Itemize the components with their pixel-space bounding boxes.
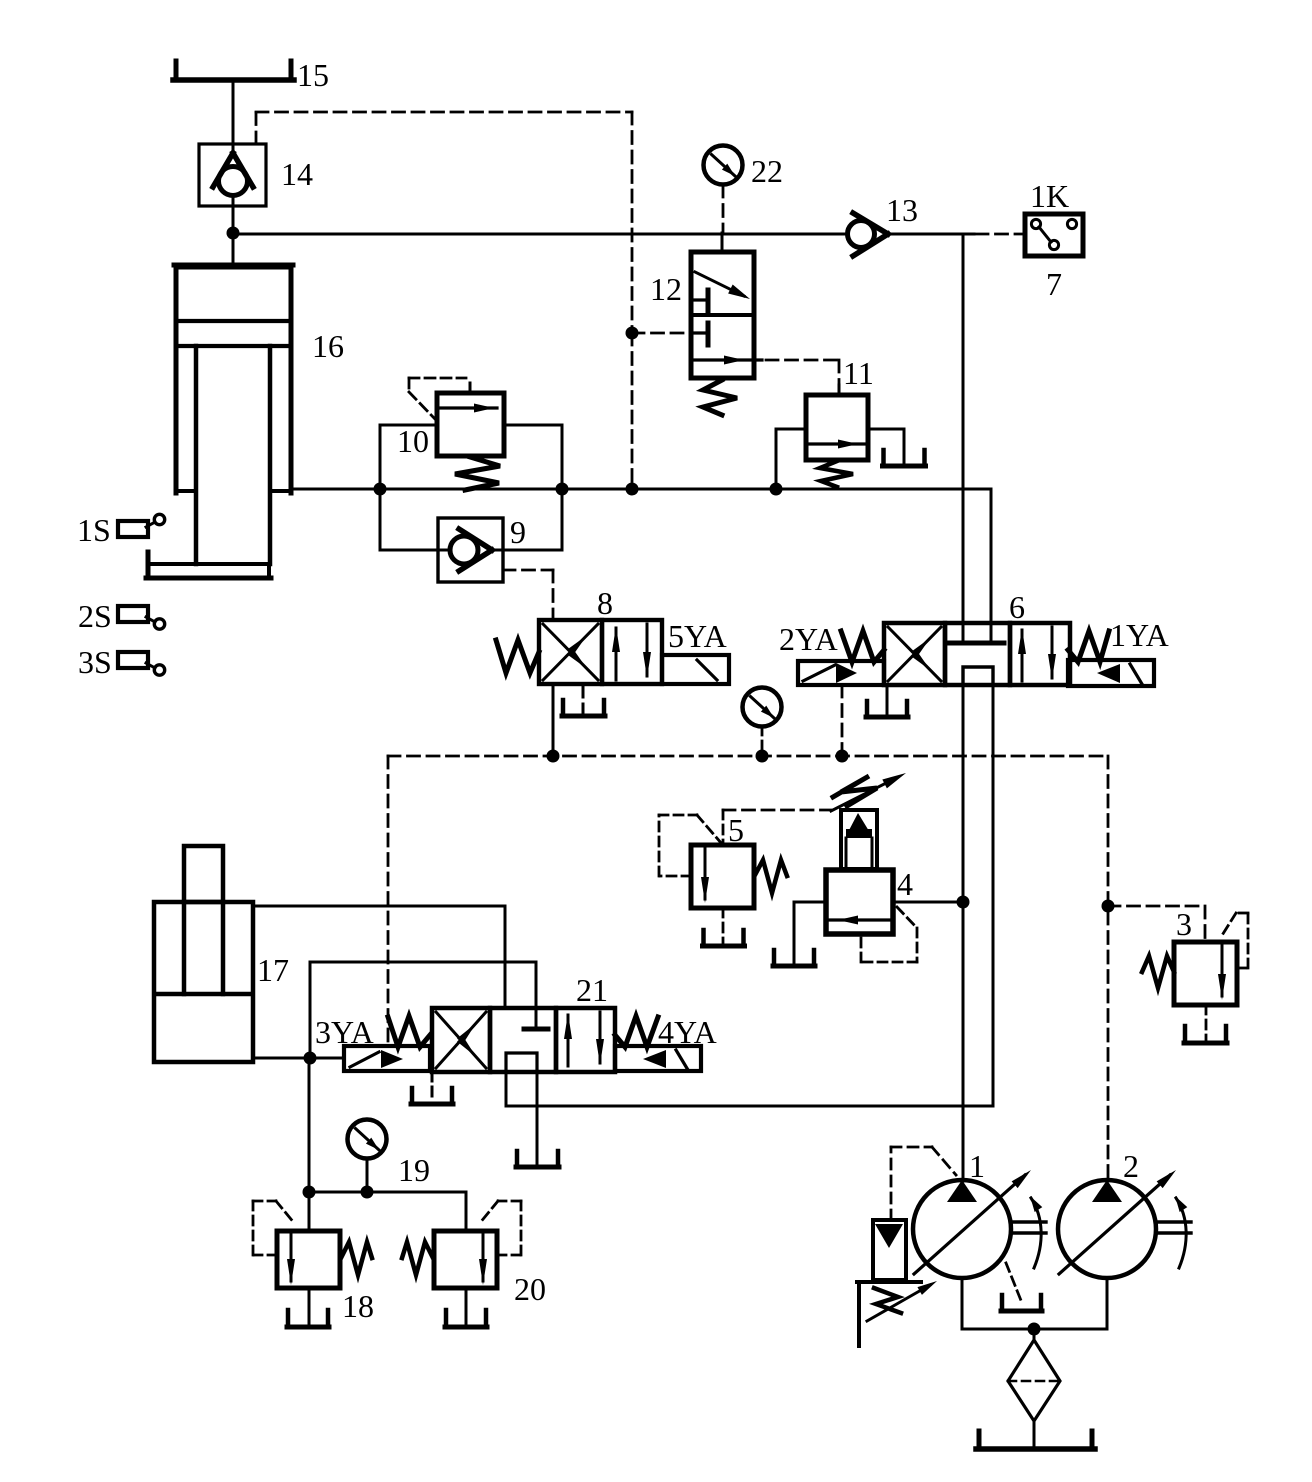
svg-text:19: 19 bbox=[398, 1152, 430, 1188]
tank at valve 3 bbox=[1183, 1026, 1188, 1043]
svg-text:6: 6 bbox=[1009, 589, 1025, 625]
svg-text:5YA: 5YA bbox=[668, 618, 727, 654]
valve 4 pilot drain loop (dashed) bbox=[897, 907, 917, 928]
pressure gauge 19 bbox=[348, 1120, 387, 1159]
valve 3 drain (dashed) bbox=[1205, 1005, 1208, 1040]
variable pump 1 bbox=[913, 1180, 1011, 1278]
solenoid 1YA bbox=[1068, 660, 1154, 686]
svg-text:2S: 2S bbox=[78, 598, 112, 634]
svg-text:1: 1 bbox=[969, 1148, 985, 1184]
pump 1 control spring and bracket bbox=[857, 1280, 921, 1284]
svg-text:14: 14 bbox=[281, 156, 313, 192]
wire valve14 to cylinder 16 with junction bbox=[232, 196, 235, 265]
valve 8 right position box (parallel arrows) bbox=[602, 620, 662, 684]
valve 8 tank port (dashed) bbox=[582, 685, 585, 697]
svg-text:10: 10 bbox=[397, 423, 429, 459]
tank at valve 20 bbox=[444, 1310, 449, 1327]
tank 15 (reservoir) bbox=[174, 61, 179, 80]
svg-text:4YA: 4YA bbox=[658, 1014, 717, 1050]
sensing line (dashed) to pressure switch 7 bbox=[976, 233, 1023, 236]
valve 6 left spring bbox=[841, 631, 884, 662]
valve 20 drain bbox=[465, 1288, 468, 1324]
svg-text:5: 5 bbox=[728, 812, 744, 848]
pilot branch (dashed) to valve 12 bbox=[626, 327, 639, 340]
check 9 pilot (dashed) to valve 8 bbox=[503, 569, 553, 572]
svg-text:20: 20 bbox=[514, 1271, 546, 1307]
control pilot rail (dashed, y=756) bbox=[388, 755, 1108, 758]
valve 18 pilot loop (dashed) bbox=[254, 1254, 277, 1257]
svg-text:7: 7 bbox=[1046, 266, 1062, 302]
valve 8 left position box (crossed arrows) bbox=[539, 620, 602, 684]
pump 2 shaft and rotation bbox=[1156, 1220, 1191, 1223]
svg-text:1S: 1S bbox=[77, 512, 111, 548]
pressure gauge (between 8 and 6) bbox=[743, 688, 782, 727]
svg-text:15: 15 bbox=[297, 57, 329, 93]
relief valve 10 bbox=[437, 393, 504, 456]
svg-text:9: 9 bbox=[510, 514, 526, 550]
svg-text:2: 2 bbox=[1123, 1148, 1139, 1184]
relief valve 18 bbox=[277, 1231, 340, 1288]
valve 5 drain (dashed) bbox=[722, 908, 725, 943]
valve 4 adjustable spring with arrow bbox=[833, 776, 877, 806]
valve 6 right spring bbox=[1068, 631, 1109, 662]
valve 12 pilot output (dashed) to valve 11 bbox=[766, 359, 839, 362]
valve 6 tank port bbox=[886, 685, 889, 714]
filter to tank wire bbox=[1033, 1421, 1036, 1449]
svg-text:8: 8 bbox=[597, 585, 613, 621]
valve 21 B-port wire to tank bbox=[536, 1072, 539, 1163]
solenoid 2YA bbox=[798, 661, 884, 685]
variable pump 2 bbox=[1058, 1180, 1156, 1278]
valve 21 centre position box bbox=[490, 1008, 556, 1072]
tank at valve 21 left bbox=[410, 1088, 415, 1104]
valve 4 outlet wire to pump line bbox=[893, 901, 963, 904]
tank pump case drain bbox=[1000, 1295, 1005, 1311]
svg-text:11: 11 bbox=[843, 355, 874, 391]
valve 6 centre position box (blocked P/T, bridged A/B) bbox=[945, 623, 1010, 685]
cylinder 17 bbox=[184, 846, 223, 902]
valve 21 tank port (dashed) bbox=[431, 1072, 434, 1100]
pressure gauge 22 bbox=[704, 146, 743, 185]
valve 11 outlet wire to tank bbox=[868, 428, 904, 431]
valve 18 drain bbox=[308, 1288, 311, 1324]
wire check 13 to tee bbox=[888, 233, 974, 236]
cylinder 17 piston-side wire bbox=[253, 1057, 344, 1060]
wire pump1 pressure riser (x=963) bbox=[962, 234, 965, 641]
valve 5 pilot loop (dashed) bbox=[660, 875, 691, 878]
relief valve 20 bbox=[434, 1231, 497, 1288]
label wire tank15 to valve 14 bbox=[232, 83, 235, 152]
tank at valve 5 bbox=[701, 930, 706, 946]
pump 1 case drain (dashed) bbox=[1006, 1263, 1022, 1303]
svg-text:16: 16 bbox=[312, 328, 344, 364]
pilot-operated check valve 14 bbox=[199, 144, 266, 206]
wire riser to valve 6 P-port (x=991) bbox=[990, 489, 993, 623]
svg-text:1YA: 1YA bbox=[1110, 617, 1169, 653]
cylinder 16 platen foot bbox=[146, 552, 151, 578]
svg-text:3S: 3S bbox=[78, 644, 112, 680]
pump suction wires bbox=[961, 1278, 964, 1329]
valve 8 return spring bbox=[496, 640, 539, 673]
gauge sensing stub (dashed) bbox=[761, 727, 764, 756]
valve 8 A-port wire down bbox=[552, 684, 555, 756]
valve 21 left spring bbox=[388, 1016, 430, 1047]
valve 20 pilot loop (dashed) bbox=[497, 1254, 520, 1257]
svg-text:1K: 1K bbox=[1030, 178, 1069, 214]
solenoid 3YA bbox=[344, 1046, 430, 1071]
main tank (reservoir) bbox=[977, 1431, 982, 1449]
pump 1 shaft and rotation bbox=[1011, 1220, 1046, 1223]
check valve 9 bbox=[438, 518, 503, 582]
svg-text:2YA: 2YA bbox=[779, 621, 838, 657]
valve 11 inlet wire bbox=[776, 428, 806, 431]
valve 5 top pilot stub (dashed) bbox=[722, 810, 725, 845]
solenoid 2YA pilot wire (dashed) bbox=[841, 685, 844, 756]
svg-text:3: 3 bbox=[1176, 906, 1192, 942]
pilot rail left drop to valve 21 (dashed) bbox=[387, 756, 390, 1044]
reducing valve 3 bbox=[1174, 942, 1237, 1005]
cylinder 16 (press ram) bbox=[176, 267, 291, 493]
valve 6 right position box (parallel arrows) bbox=[1010, 623, 1070, 685]
pump 1 control pilot (dashed) bbox=[890, 1147, 893, 1220]
return line y=1106 bbox=[506, 1105, 993, 1108]
valve 4 inlet wire to tank bbox=[794, 901, 826, 904]
bypass loop wires bbox=[379, 425, 382, 550]
cylinder 17 rod-side wire bbox=[253, 905, 505, 908]
valve 21 right spring bbox=[615, 1016, 658, 1047]
tank at valve 11 bbox=[881, 450, 886, 466]
pressure line to check valve 13 (y=234) bbox=[233, 233, 845, 236]
work line from cylinder 16 (y=489) bbox=[291, 488, 991, 491]
valve 21 left position box (crossed arrows) bbox=[432, 1008, 490, 1072]
valve 3 feed (dashed) bbox=[1108, 905, 1205, 908]
suction filter bbox=[1008, 1340, 1060, 1421]
valve 21 right position box (parallel arrows) bbox=[556, 1008, 615, 1072]
svg-text:3YA: 3YA bbox=[315, 1014, 374, 1050]
pilot line y=810 (dashed) bbox=[723, 809, 831, 812]
valve 4 proportional solenoid tower bbox=[841, 810, 877, 869]
svg-text:21: 21 bbox=[576, 972, 608, 1008]
pilot rail right drop to pump 2 (dashed) bbox=[1107, 756, 1110, 1178]
pump 1 stroking piston bbox=[873, 1220, 906, 1280]
check valve 13 bbox=[848, 221, 875, 248]
svg-text:22: 22 bbox=[751, 153, 783, 189]
valve 4 main stage bbox=[826, 870, 893, 934]
svg-text:4: 4 bbox=[897, 866, 913, 902]
relief valve 11 bbox=[806, 395, 868, 460]
tank at valve 4 bbox=[772, 950, 777, 966]
manifold wire y=1192 bbox=[309, 1191, 466, 1194]
solenoid 4YA bbox=[615, 1046, 701, 1071]
svg-text:12: 12 bbox=[650, 271, 682, 307]
pilot line (dashed) from valve 14 to node at x632 bbox=[255, 112, 258, 144]
tank at valve 18 bbox=[286, 1310, 291, 1327]
reducing valve 5 bbox=[691, 845, 754, 908]
svg-text:18: 18 bbox=[342, 1288, 374, 1324]
svg-text:13: 13 bbox=[886, 192, 918, 228]
gauge 22 sensing line (dashed) bbox=[722, 185, 725, 233]
valve 21 A-port wire bbox=[505, 1072, 508, 1106]
valve 10 pilot (dashed) bbox=[409, 377, 466, 380]
node A (junction under valve 14) bbox=[227, 227, 240, 240]
tank at valve 8 bbox=[561, 700, 566, 716]
wire cylinder 17 to manifold bbox=[308, 1058, 311, 1231]
tank at valve 21 centre bbox=[515, 1151, 520, 1167]
unloading valve 12 bbox=[691, 252, 754, 378]
valve 3 pilot loop (dashed) bbox=[1237, 967, 1248, 970]
solenoid 5YA bbox=[662, 655, 729, 684]
tank at valve 6 bbox=[865, 701, 870, 717]
svg-text:17: 17 bbox=[257, 952, 289, 988]
valve 6 left position box (crossed arrows) bbox=[884, 623, 945, 685]
